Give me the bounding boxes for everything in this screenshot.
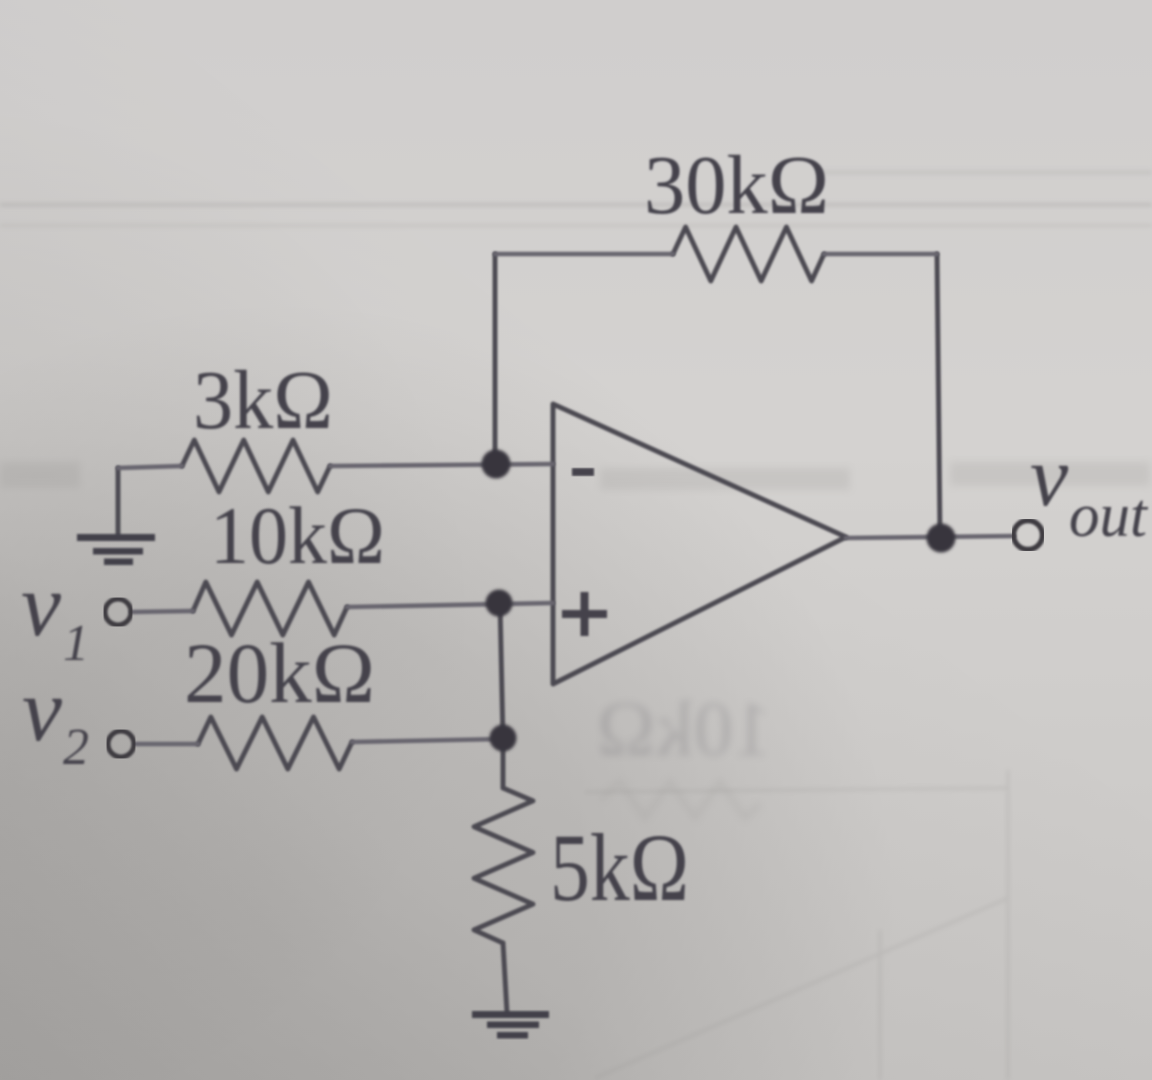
faint bleed-through circuit bottom right [585,770,1008,1080]
ground left [77,534,155,565]
wire 10k to noninverting input [347,603,553,607]
op-amp U1 triangle [553,404,846,684]
wire 20k to node B [352,739,503,742]
terminal v2 [108,731,134,757]
op-amp plus sign [562,592,607,636]
label vout [1030,428,1149,550]
svg-text:v: v [1030,428,1069,524]
svg-text:10kΩ: 10kΩ [210,490,385,581]
wire feedback top horizontal right [824,252,937,257]
wire 5k to bottom ground [503,943,507,1013]
label v1 [21,556,89,672]
wire feedback top horizontal [495,252,673,257]
svg-text:5kΩ: 5kΩ [550,814,689,921]
resistor R 5k zigzag vertical [474,788,533,943]
wire feedback right vertical [937,254,940,538]
wire node A down to node B [500,603,503,739]
wire v1 to 10k [131,611,193,612]
wire feedback left vertical [493,254,498,465]
node A at noninverting input [486,590,513,617]
svg-text:20kΩ: 20kΩ [184,625,375,721]
svg-text:3kΩ: 3kΩ [193,354,333,447]
wire v2 to 20k [135,742,198,747]
resistor R 3k zigzag [182,440,330,492]
svg-text:2: 2 [63,719,89,776]
faint bleed-through text mid page [0,462,1150,490]
wire 3k to inverting input [330,464,553,466]
faint mirrored 10k label bleed-through [597,685,772,818]
wire ground stub vertical left [116,468,121,535]
faint printed-text band bleed across page top [0,170,1152,227]
label 3k [193,354,333,447]
svg-text:30kΩ: 30kΩ [644,139,829,232]
label 10k [210,490,385,581]
resistor R 30k zigzag [673,227,824,281]
label 5k [550,814,689,921]
wire output [846,536,1014,538]
wire ground elbow to 3k [118,466,182,468]
label v2 [22,661,89,776]
node at inverting input [482,450,511,479]
op-amp minus sign [572,468,594,476]
terminal v1 [105,599,131,625]
node at output [927,524,956,553]
label 30k [644,139,829,232]
wire node B down to 5k [501,739,506,788]
ground bottom [472,1011,549,1039]
resistor R 20k zigzag [198,717,352,769]
circuit strokes [118,227,940,1013]
terminal vout [1014,521,1043,550]
label 20k [184,625,375,721]
svg-text:v: v [22,661,62,760]
svg-text:1: 1 [63,615,89,672]
svg-text:v: v [21,556,61,655]
node B at 20k / 5k junction [490,725,517,752]
resistor R 10k zigzag [193,582,347,635]
svg-text:10kΩ: 10kΩ [597,685,772,772]
svg-text:out: out [1069,482,1149,550]
